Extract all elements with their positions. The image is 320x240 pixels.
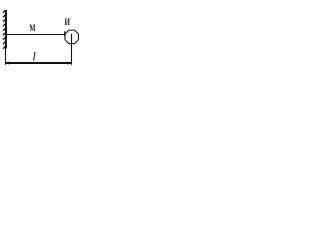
rod end tick	[64, 31, 66, 36]
rod	[6, 34, 65, 36]
label и	[65, 17, 71, 27]
svg-text:M: M	[29, 23, 36, 33]
wall vertical line	[5, 10, 7, 49]
left arrowhead	[5, 61, 9, 64]
svg-text:l: l	[32, 49, 36, 63]
extension line from ball center	[71, 34, 73, 65]
ball (circle)	[65, 30, 78, 43]
label m	[29, 23, 36, 33]
right arrowhead	[68, 61, 72, 64]
svg-text:И: И	[65, 17, 71, 27]
extension line below wall	[5, 48, 7, 65]
dimension line	[5, 62, 71, 64]
wall hatching	[3, 10, 5, 49]
